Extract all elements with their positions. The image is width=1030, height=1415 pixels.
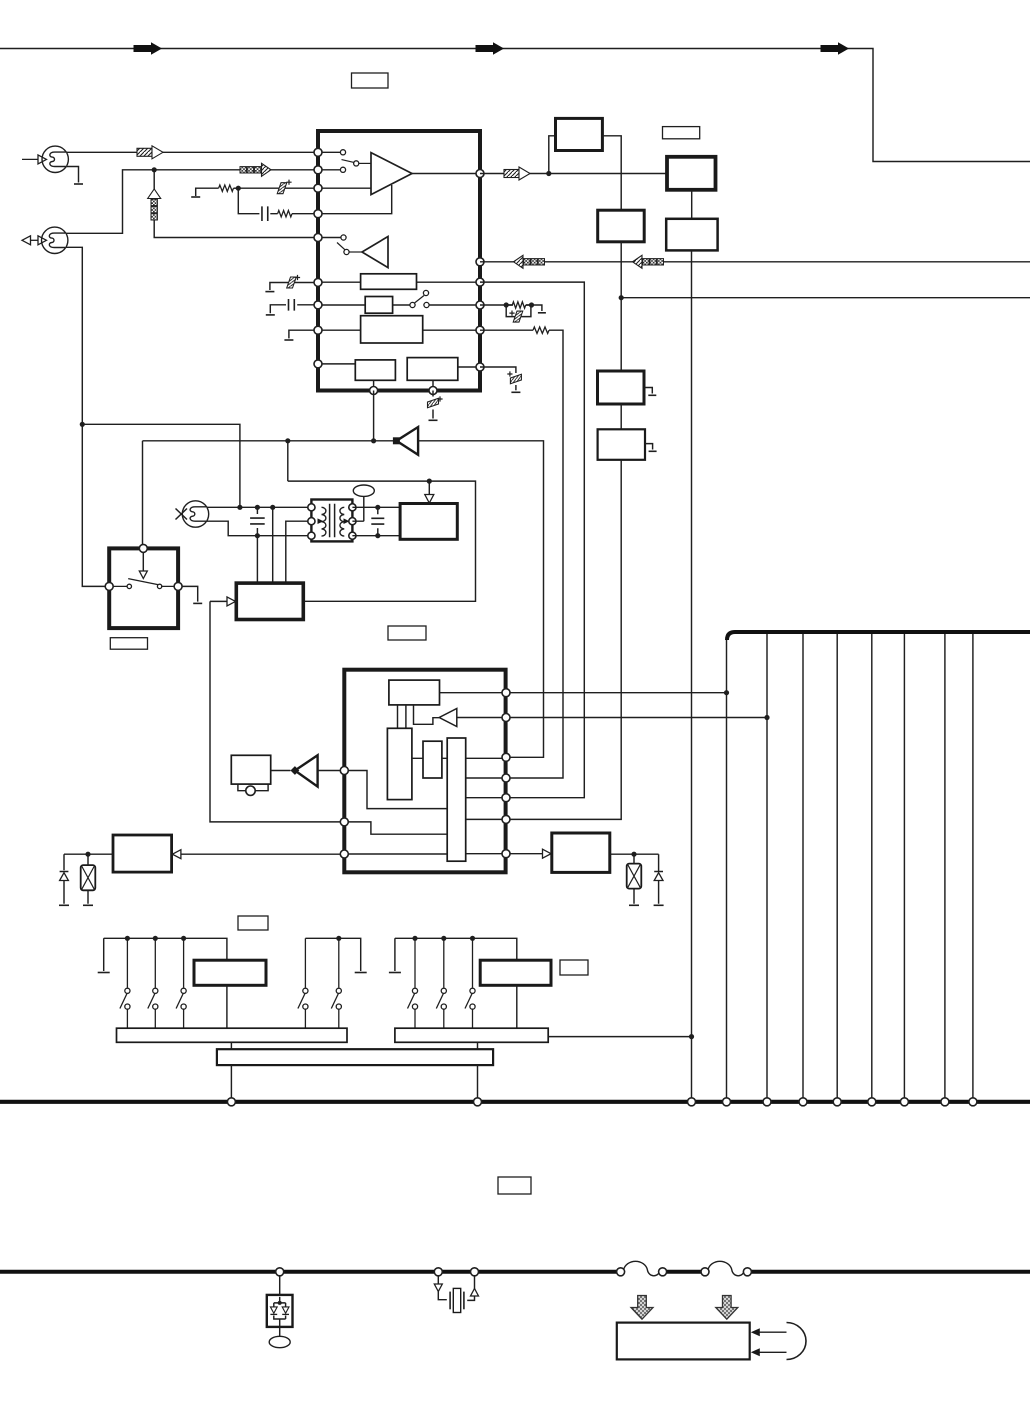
wire R2 to U1 pin4 [292, 213, 318, 215]
resistor R1 [219, 185, 234, 191]
pin A right [174, 582, 182, 590]
wire A right ground [182, 586, 198, 601]
wire pin6 cap lead [270, 283, 318, 291]
wire T5 to U2 [318, 770, 340, 772]
capacitor C1 polarized [277, 183, 287, 194]
bus wire x904.4 [903, 634, 905, 1098]
wire T3 out to U2 chain [418, 441, 543, 758]
wire cap C9 leads [377, 507, 379, 535]
label box L5 [238, 916, 268, 930]
label box L6 [560, 960, 588, 975]
cable bundle top [727, 632, 1030, 640]
wire pin mid to U2 [480, 282, 584, 798]
wire C1 right lead to D1 [602, 136, 621, 210]
pin U1 bottom 1 [370, 387, 378, 395]
wire diode D3 lead [658, 854, 660, 904]
arrowhead filter down [434, 1284, 442, 1292]
transformer T1 left winding [322, 507, 326, 536]
capacitor C8 [250, 518, 265, 524]
pin U2 left y770.5 [340, 767, 348, 775]
filter crystal body [453, 1288, 460, 1312]
ground RV1 [629, 904, 639, 906]
pin U1 left y237.5 [314, 234, 322, 242]
arrowhead filter up [471, 1289, 479, 1297]
wire muting line [143, 440, 397, 442]
wire J2 to U1 pin2 [66, 170, 341, 234]
resistor R4 [533, 327, 549, 333]
wire U2 left pin3 path [344, 853, 447, 855]
wire surge lead [279, 1276, 281, 1295]
junction node out cap b [375, 533, 380, 538]
junction node pin2 branch [152, 167, 157, 172]
microphone element [246, 786, 255, 795]
switch S2 contacts in U1 [337, 235, 362, 255]
junction node left rail [80, 422, 85, 427]
wire bias rail [288, 481, 476, 601]
op-amp A1 in U1 [371, 153, 412, 195]
switch key Sy472.5 [465, 938, 475, 1028]
transformer T1 core lines [330, 504, 335, 537]
junction node mute branch [285, 438, 290, 443]
pin T1 left y535.7 [308, 532, 315, 539]
junction node R3 b [529, 302, 534, 307]
wire C7 ground lead [432, 410, 434, 419]
connector jack J2 arrowhead left [22, 236, 31, 245]
terminal on power line x474.5 [471, 1268, 479, 1276]
arrowhead feedback 2 [751, 1348, 760, 1356]
ground D4 [59, 904, 69, 906]
wire J2 bottom lead down [66, 247, 106, 586]
wire T1 out bottom [352, 535, 400, 537]
bus wire x871.8 [871, 634, 873, 1098]
ground RV2 [83, 904, 93, 906]
pin U1 left y363.9 [314, 360, 322, 368]
capacitor C9 [371, 518, 384, 524]
label box L4 [388, 626, 426, 640]
terminal on ground bus x691.5 [688, 1098, 696, 1106]
ground A box [193, 602, 202, 604]
switch key Sx183.6 [176, 938, 186, 1028]
block microphone amp [231, 755, 270, 784]
wire surge internal [274, 1297, 286, 1327]
arrowhead out of I box [172, 850, 181, 859]
arrow hatched signal 3 [504, 167, 530, 180]
pin U2 right y717.5 [502, 714, 510, 722]
pin U2 left y854 [340, 850, 348, 858]
pin U1 left y304.9 [314, 301, 322, 309]
terminal on ground bus x904.4 [900, 1098, 908, 1106]
arrowhead into H box [543, 849, 552, 858]
wire R1 tail [234, 187, 239, 189]
arrow hatched signal 1 [137, 146, 163, 159]
junction node bus w1 [724, 690, 729, 695]
pin U1 right y173.5 [476, 170, 484, 178]
diode D4 [60, 871, 69, 873]
terminal on ground bus x871.8 [868, 1098, 876, 1106]
terminal on ground bus x231.4 [227, 1098, 235, 1106]
wire U2 pin to bus w2 [510, 717, 767, 719]
junction rail dot x415 [412, 936, 417, 941]
wire A top pin lead [142, 552, 144, 571]
connector jack J2 output arrows [30, 239, 39, 241]
connector jack J3 cassette [182, 501, 208, 527]
wire C6 ground lead [515, 385, 517, 390]
junction node out cap a [375, 505, 380, 510]
wire R4 to U2 pin [510, 330, 563, 778]
pin U1 right y282.1 [476, 278, 484, 286]
connector jack J1 [42, 146, 68, 172]
switch box A outline [109, 548, 178, 628]
pin U2 right y853.7 [502, 850, 510, 858]
transformer T1 tap arrow right [344, 518, 350, 524]
wire pin7 net [480, 305, 542, 311]
wire matrix rail right [395, 938, 517, 971]
arrowhead feedback 1 [751, 1328, 760, 1336]
resistor R2 [278, 211, 292, 217]
block F2 in U1 [365, 297, 392, 314]
terminal on ground bus x767 [763, 1098, 771, 1106]
wire U1 out to C2 box [480, 173, 667, 175]
junction node out1 [546, 171, 551, 176]
wire U2 to H box [510, 853, 544, 855]
wire B2 to bus2 [516, 985, 518, 1028]
block F4 in U1 [355, 360, 395, 380]
wire F4 to bottom pin [373, 380, 375, 390]
block R1 in U2 [389, 680, 440, 705]
varistor RV2 [81, 865, 96, 890]
wire R1 ground stub [196, 188, 219, 196]
bus wire x944.9 [944, 634, 946, 1098]
connector jack J2 arrowhead right [38, 236, 47, 245]
block R3 in U2 [423, 741, 442, 778]
junction square T3 tip [393, 437, 400, 444]
block E2 [598, 429, 645, 460]
block G motor [400, 504, 457, 540]
block D1 [598, 210, 645, 242]
junction node drop2 [270, 505, 275, 510]
switch key Sy415 [408, 938, 418, 1028]
block F1 in U1 [361, 274, 417, 290]
wire RV1 leads [633, 854, 635, 904]
terminal on power line x705 [701, 1268, 709, 1276]
wire H right lead [610, 853, 659, 855]
wire U2 left pin1 path [344, 771, 447, 809]
switch key Sx155.3 [148, 938, 158, 1028]
block F3 in U1 [361, 316, 423, 343]
buffer T4 in U2 [439, 709, 457, 727]
wire mute branch down [287, 441, 289, 481]
bus wire 1 [726, 640, 728, 1098]
wire F5 to right pin [458, 366, 480, 368]
wire E1 to E2 [620, 404, 622, 429]
resistor R3 [512, 302, 525, 308]
block E1 [598, 371, 645, 404]
block R2 in U2 [387, 728, 412, 799]
wire pin3 into A1 [318, 187, 371, 189]
junction node bus2 main [689, 1034, 694, 1039]
filter plate right [463, 1292, 465, 1310]
terminal on ground bus x944.9 [941, 1098, 949, 1106]
wire D1 chain down to E1 [620, 242, 622, 371]
wire R2-R3 link [412, 757, 447, 759]
wire F left chain to U2 [210, 601, 340, 822]
wire pin8 out resistor [480, 329, 533, 331]
wire J1 ground lead [66, 167, 78, 183]
block I power left [113, 835, 172, 872]
pin U1 left y330.2 [314, 326, 322, 334]
diode D6 [282, 1307, 289, 1315]
ground C4 [266, 314, 275, 316]
wire B1 to bus1 [226, 985, 228, 1028]
surge arrester box [267, 1295, 293, 1327]
arrow flow right 3 [821, 42, 849, 54]
stub end mid rail [355, 972, 367, 974]
pin T1 left y507.3 [308, 504, 315, 511]
wire feedback arrow 2 [756, 1351, 787, 1353]
block R4 in U2 [447, 738, 466, 861]
terminal on ground bus x477.5 [474, 1098, 482, 1106]
pin U2 right y819.4 [502, 815, 510, 823]
junction rail dot mid [336, 936, 341, 941]
wire mic bracket [238, 784, 268, 791]
switch S1 contacts in U1 [340, 150, 371, 173]
junction node R3 a [504, 302, 509, 307]
wire arrow into G box [428, 481, 430, 495]
capacitor C7 polarized [428, 398, 439, 408]
block ferrite filter [617, 1323, 750, 1360]
bus bar matrix 1 [117, 1028, 348, 1042]
lamp indicator [353, 485, 374, 496]
arrowhead into G box [425, 495, 434, 504]
junction node rail drop [237, 505, 242, 510]
junction node cap bottom [255, 533, 260, 538]
wire R3 leads [506, 304, 531, 306]
junction node R1 out [236, 186, 241, 191]
ground bus bottom [0, 1100, 1030, 1104]
terminal on ground bus x972.9 [969, 1098, 977, 1106]
arrow stippled down 2 [716, 1296, 738, 1320]
wire J1 to U1 pin1 [66, 151, 340, 153]
pin U1 left y213.7 [314, 210, 322, 218]
connector jack J1 arrowhead [38, 155, 47, 164]
wire E2 ground lead [645, 444, 653, 450]
op-amp A2 in U1 [362, 237, 388, 268]
terminal on power line x747.4 [743, 1268, 751, 1276]
wire into F box left [210, 600, 228, 602]
diode D3 [654, 871, 663, 873]
terminal on ground bus x726.5 [723, 1098, 731, 1106]
switch S4 in A box [113, 579, 174, 589]
filter plate left [449, 1292, 451, 1310]
wire left rail branch [82, 424, 240, 507]
wire C2 to D2 [691, 190, 693, 219]
junction node cap tap [255, 505, 260, 510]
terminal on ground bus x837.2 [833, 1098, 841, 1106]
block C2 [667, 157, 716, 190]
pin A left [105, 582, 113, 590]
bus wire x972.9 [972, 634, 974, 1098]
loop bracket arc [787, 1323, 807, 1360]
bus bar matrix common [217, 1049, 493, 1065]
ground R1 [191, 196, 200, 198]
terminal on power line x279.7 [276, 1268, 284, 1276]
block B1 keys [194, 960, 266, 985]
power line bottom [0, 1270, 1030, 1274]
pin U2 right y692.7 [502, 689, 510, 697]
wire I to U2 [179, 853, 340, 855]
transformer T1 core box [311, 500, 352, 542]
arrow flow right 2 [476, 42, 504, 54]
wire RV2 leads [87, 854, 89, 904]
wire R3 parallel cap branch [506, 305, 531, 317]
wire T1 out top [352, 506, 400, 508]
diode D5 [270, 1307, 277, 1315]
buffer T5 [295, 755, 318, 786]
wire R4 outputs [466, 758, 510, 853]
wire cap chain to F box [256, 507, 258, 583]
junction rail dot x443.8 [441, 936, 446, 941]
pin U2 right y778 [502, 774, 510, 782]
pin U1 right y261.8 [476, 258, 484, 266]
wire lamp lead [352, 496, 363, 521]
pin U1 left y282.4 [314, 278, 322, 286]
pin U2 right y757.3 [502, 753, 510, 761]
earth electrode [269, 1336, 290, 1347]
varistor RV1 [627, 864, 642, 889]
bus wire x803 [802, 634, 804, 1098]
arrow checkered left 1 [514, 255, 545, 268]
wire pin6 through F1 [318, 281, 480, 283]
ground E2 [649, 450, 657, 452]
switch key Sm1 [298, 938, 308, 1028]
pin U1 left y152.3 [314, 148, 322, 156]
junction rail dot x155.3 [153, 936, 158, 941]
wire J3 bottom line [207, 521, 312, 536]
wire transformer mid tap to F box [286, 521, 312, 583]
junction rail dot x127.4 [125, 936, 130, 941]
capacitor C2 [262, 206, 268, 221]
ground C7 [429, 419, 438, 421]
junction rail dot x472.5 [470, 936, 475, 941]
arrow checkered signal 2 [240, 163, 271, 176]
arrow checkered left 2 [633, 255, 664, 268]
connector jack J1 input arrow [22, 158, 39, 160]
wire T4 to pin [457, 717, 506, 719]
ground D3 [654, 904, 664, 906]
arrow stippled down 1 [631, 1296, 653, 1320]
wire feedback arrow 1 [756, 1331, 787, 1333]
switch key Sm2 [331, 938, 341, 1028]
capacitor C6 polarized [510, 374, 521, 384]
transformer T1 right winding [340, 507, 344, 536]
wire J3 top line [207, 506, 312, 508]
label box L3 [110, 638, 147, 650]
wire A1 output to pin [412, 173, 480, 175]
wire E1 ground lead [644, 388, 652, 394]
pin A top [139, 544, 147, 552]
crossed mark X jack [176, 509, 188, 520]
block F servo [236, 583, 303, 619]
wire filter right lead [467, 1276, 474, 1301]
terminal on power line x620.6 [617, 1268, 625, 1276]
wire bus2 stem [477, 1042, 479, 1098]
wire filter left lead [438, 1276, 447, 1300]
arrow flow right 1 [134, 42, 162, 54]
junction node bias G [427, 479, 432, 484]
terminal on power line x662.6 [659, 1268, 667, 1276]
ground C6 [511, 391, 520, 393]
wire supply to right edge [621, 297, 1030, 299]
wire R1 to pin [440, 692, 507, 694]
wire left rail to A box top [142, 441, 144, 549]
wire surge to earth [279, 1327, 281, 1336]
wire pin7 cap lead [270, 305, 318, 314]
wire pin2 branch to U1 pin5 [154, 170, 318, 238]
wire diode D4 lead [63, 854, 65, 904]
capacitor C4 [289, 299, 295, 311]
bus wire x837.2 [836, 634, 838, 1098]
wire D2 long chain [691, 250, 693, 1097]
wire bus2 to main [548, 1036, 691, 1038]
switch key Sy443.8 [436, 938, 446, 1028]
wire pin8 ground lead [289, 330, 318, 338]
inductor L2 [708, 1261, 745, 1276]
inductor L1 [624, 1261, 661, 1276]
wire drop2 to F box [272, 507, 274, 583]
ground J1 [74, 183, 83, 185]
capacitor C5 polarized [513, 311, 523, 322]
arrowhead into F box [227, 597, 236, 606]
block D2 [666, 219, 717, 251]
pin U1 right y330.2 [476, 326, 484, 334]
block C1 [556, 118, 603, 150]
junction node supply [619, 295, 624, 300]
wire main top rail [0, 49, 1030, 162]
junction rail dot x183.6 [181, 936, 186, 941]
wire pin7 to F2 [318, 304, 480, 306]
pin U1 left y169.8 [314, 166, 322, 174]
wire R1-R2 links [398, 705, 406, 728]
ground C3 [265, 291, 274, 293]
junction node mute U1 [371, 438, 376, 443]
wire pin4 branch [238, 188, 277, 214]
arrow checkered up [148, 189, 161, 220]
terminal on ground bus x803 [799, 1098, 807, 1106]
pin U1 left y188.2 [314, 184, 322, 192]
ground E1 [648, 394, 656, 396]
pin T1 left y521.2 [308, 518, 315, 525]
wire U1 bottom pin1 down [373, 391, 375, 441]
label box L1 [352, 73, 389, 88]
wire F5 to bottom pin [432, 380, 434, 390]
wire pin9 cap lead [480, 367, 516, 373]
wire mic to T5 [271, 770, 291, 772]
switch S3 contacts in U1 [410, 290, 429, 307]
wire C1 left lead [549, 136, 556, 174]
wire pin5 to S2 [318, 237, 341, 239]
wire U2 left pin2 path [344, 822, 447, 834]
pin T1 right y507.3 [349, 504, 356, 511]
switch key Sx127.4 [120, 938, 130, 1028]
junction node bus w2 [764, 715, 769, 720]
label box L2 [663, 127, 700, 139]
wire U1 bottom pin2 cap [432, 391, 434, 397]
pin T1 right y521.2 [349, 518, 356, 525]
wire T4 tip link [414, 705, 440, 724]
junction square T5 tip [291, 766, 300, 775]
pin U2 left y821.9 [340, 818, 348, 826]
pin T1 right y535.7 [349, 532, 356, 539]
